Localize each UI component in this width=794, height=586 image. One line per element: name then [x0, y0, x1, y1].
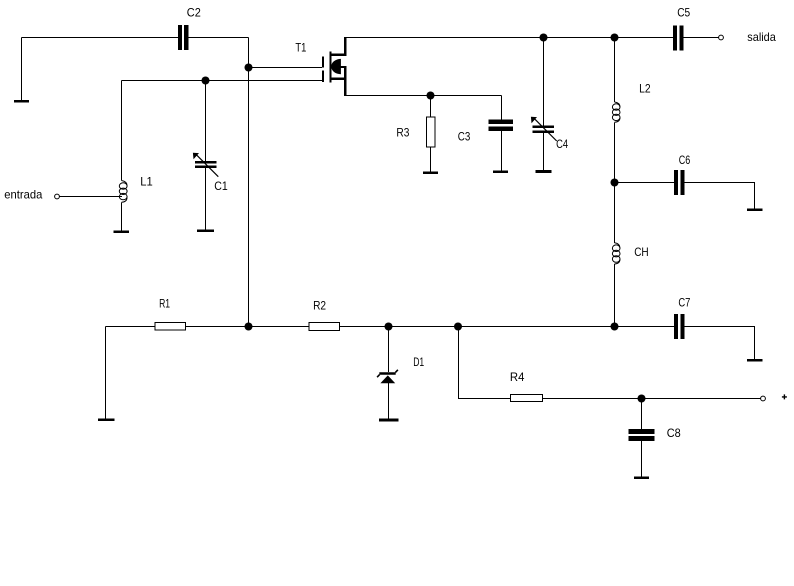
- wire T1 source to C3 corner: [345, 95, 502, 97]
- wire C8 bottom stub: [641, 441, 643, 476]
- ground D1: [379, 419, 399, 422]
- svg-text:T1: T1: [295, 41, 306, 55]
- wire top drain rail to C5: [345, 37, 673, 39]
- terminal plus: [761, 396, 766, 401]
- wire R2 to C7: [340, 326, 675, 328]
- wire L1 bottom stub: [121, 202, 123, 230]
- node D1 junction: [385, 323, 393, 331]
- svg-text:salida: salida: [747, 30, 776, 44]
- resistor R1: [155, 322, 185, 330]
- wire R4 to plus terminal: [543, 398, 761, 400]
- inductor CH (choke): [612, 243, 620, 264]
- node CH/C7 junction: [611, 323, 619, 331]
- resistor R3: [426, 117, 435, 147]
- wire R3 top stub: [430, 96, 432, 118]
- svg-text:C5: C5: [677, 6, 690, 20]
- wire L1 top stub: [121, 81, 123, 181]
- node C8 junction: [638, 395, 646, 403]
- wire ground stub top-left: [21, 38, 23, 101]
- wire C2 right to corner: [188, 37, 248, 39]
- ground L1: [114, 231, 130, 234]
- resistor R4: [511, 394, 543, 401]
- node R3 junction: [427, 92, 435, 100]
- transistor T1 (dual-gate MOSFET): [322, 37, 347, 96]
- wire C6 right + drop to ground: [685, 183, 755, 209]
- arrow of variable capacitor C1: [193, 153, 218, 177]
- svg-text:C7: C7: [678, 296, 690, 310]
- terminal entrada: [55, 194, 60, 199]
- wire top-left rail to C2: [22, 37, 178, 39]
- svg-text:CH: CH: [634, 245, 649, 259]
- ground C6: [747, 209, 763, 212]
- svg-text:C2: C2: [187, 5, 201, 19]
- wire C4 bottom stub: [543, 133, 545, 170]
- capacitor C3: [489, 119, 513, 124]
- node L2 junction: [611, 34, 619, 42]
- inductor L1: [119, 181, 127, 203]
- wire L2 bottom stub: [614, 122, 616, 182]
- wire C5 to salida terminal: [684, 37, 719, 39]
- ground C3: [493, 171, 508, 174]
- node C4 junction: [540, 34, 548, 42]
- wire left ground drop: [105, 327, 107, 419]
- svg-text:R3: R3: [396, 125, 409, 139]
- node C2/gate junction: [245, 64, 253, 72]
- svg-text:R2: R2: [313, 299, 326, 313]
- wire C7 right + drop to ground: [685, 327, 755, 360]
- wire C4 top stub: [543, 38, 545, 126]
- wire C1 top stub: [205, 81, 207, 162]
- ground C4: [536, 170, 552, 173]
- wire R1 to R2: [185, 326, 309, 328]
- svg-text:entrada: entrada: [4, 188, 42, 202]
- ground R3: [423, 172, 438, 175]
- ground C1: [197, 230, 214, 233]
- svg-text:C3: C3: [458, 129, 471, 143]
- wire D1 top stub: [388, 327, 390, 372]
- wire R3 bottom stub: [430, 147, 432, 172]
- wire R4 branch down + across: [458, 327, 511, 399]
- wire C1 bottom stub: [205, 168, 207, 230]
- capacitor C6: [674, 170, 678, 195]
- wire upper gate wire: [249, 67, 323, 69]
- capacitor C7: [674, 314, 678, 339]
- svg-text:R1: R1: [159, 297, 170, 311]
- plus sign: [782, 394, 787, 399]
- svg-text:L2: L2: [639, 82, 651, 96]
- wire L2 top stub: [614, 38, 616, 103]
- arrow of variable capacitor C4: [531, 117, 557, 141]
- ground C8: [634, 476, 649, 479]
- wire C8 top stub: [641, 399, 643, 429]
- node R4 junction: [454, 323, 462, 331]
- wire entrada lead: [60, 196, 123, 198]
- svg-text:C8: C8: [667, 426, 681, 440]
- svg-text:R4: R4: [510, 370, 525, 384]
- wire long vertical from C2 node down to R1/R2 node: [248, 38, 250, 327]
- wire C3 bottom stub: [501, 131, 503, 171]
- wire D1 bottom stub: [388, 383, 390, 419]
- node R1/R2 junction: [245, 323, 253, 331]
- diode D1 (zener): [377, 370, 398, 383]
- capacitor C2: [178, 25, 182, 50]
- svg-text:C4: C4: [556, 137, 568, 151]
- wire node L2/C6 to C6: [615, 182, 675, 184]
- capacitor C5: [673, 26, 677, 51]
- ground C7: [747, 359, 763, 362]
- ground top-left: [14, 100, 29, 103]
- terminal salida: [719, 35, 724, 40]
- svg-text:L1: L1: [140, 175, 153, 189]
- resistor R2: [309, 322, 339, 330]
- wire lower gate wire: [122, 80, 323, 82]
- capacitor C8: [629, 429, 655, 434]
- svg-text:C1: C1: [214, 179, 228, 193]
- wire C3 top stub: [501, 96, 503, 120]
- svg-text:C6: C6: [679, 153, 691, 167]
- wire CH top stub: [614, 183, 616, 243]
- wire CH bottom stub: [614, 264, 616, 327]
- svg-text:D1: D1: [413, 355, 424, 369]
- node C1/gate junction: [202, 77, 210, 85]
- node L2/C6/CH junction: [611, 179, 619, 187]
- capacitor C1: [195, 161, 217, 163]
- capacitor C4: [533, 126, 555, 128]
- inductor L2: [612, 102, 620, 122]
- wire bottom rail left corner to R1: [106, 326, 155, 328]
- ground bottom-left: [98, 419, 115, 422]
